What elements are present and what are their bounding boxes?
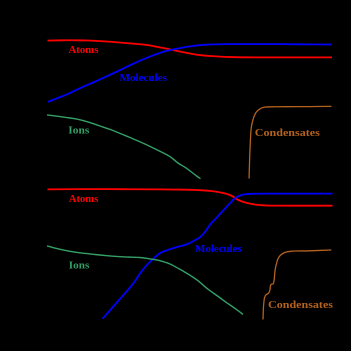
- svg-text:Atoms: Atoms: [69, 194, 99, 205]
- svg-text:Atoms: Atoms: [69, 45, 99, 56]
- svg-text:Molecules: Molecules: [120, 73, 168, 84]
- svg-text:Ions: Ions: [69, 261, 90, 272]
- curve Ions (bottom panel, green): [47, 246, 243, 315]
- svg-text:Molecules: Molecules: [195, 244, 242, 255]
- curve Condensates (top panel, brown): [249, 106, 331, 178]
- curve Ions (top panel, green): [47, 115, 201, 179]
- curve Atoms (bottom panel, red): [48, 189, 333, 206]
- curve Atoms (top panel, red): [48, 40, 333, 57]
- svg-text:Condensates: Condensates: [268, 300, 333, 311]
- svg-text:Condensates: Condensates: [255, 128, 320, 139]
- curve Molecules (bottom panel, blue): [103, 194, 333, 319]
- svg-text:Ions: Ions: [68, 126, 89, 137]
- curve Molecules (top panel, blue): [48, 44, 332, 102]
- curve Condensates (bottom panel, brown): [263, 250, 331, 320]
